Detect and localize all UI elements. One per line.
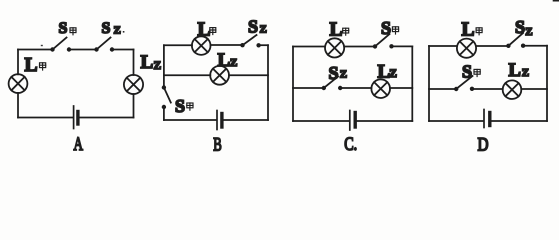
period after S yi label (A) (123, 31, 125, 33)
caption letter C (344, 135, 357, 155)
svg-text:L: L (509, 61, 521, 81)
label subscript jia of L (circuit C) (343, 28, 349, 35)
wire B bottom-right segment (224, 119, 269, 121)
battery cell (circuit A) negative plate (76, 112, 79, 125)
wire A left lower (17, 93, 19, 118)
switch S2 (S yi, circuit A) (94, 38, 114, 52)
label subscript jia of L (circuit D) (476, 28, 482, 35)
battery cell (circuit B) positive plate (216, 111, 218, 130)
label S jia (circuit A) (59, 20, 68, 37)
svg-text:S: S (248, 17, 258, 37)
svg-text:L: L (141, 52, 154, 73)
wire D bottom-left segment (429, 120, 483, 122)
lamp L yi (circuit C) (371, 79, 390, 98)
wire B top branch left segment (164, 44, 192, 46)
label L yi (circuit D) (509, 61, 530, 81)
wire B right vertical (267, 45, 269, 120)
svg-text:Z: Z (260, 24, 267, 36)
wire B middle branch left segment (164, 74, 210, 76)
label L yi (circuit A) (141, 52, 162, 73)
label L jia (circuit D) (462, 20, 475, 41)
label S jia (circuit D) (462, 62, 472, 82)
wire C top branch middle segment (344, 46, 375, 48)
wire A bottom-left segment (18, 117, 73, 119)
wire C middle branch middle segment (340, 87, 371, 89)
wire C right vertical (411, 46, 413, 121)
label L yi (circuit B) (218, 50, 238, 71)
caption letter D (478, 135, 489, 155)
battery cell (circuit C) negative plate (354, 113, 357, 128)
wire C top branch right segment (392, 45, 413, 47)
label L jia (circuit C) (330, 20, 343, 41)
label S yi (circuit B) (248, 17, 267, 37)
label subscript jia of S (circuit C) (392, 27, 398, 34)
switch S1 (S jia, circuit A) (50, 38, 71, 52)
battery cell (circuit A) positive plate (73, 106, 75, 129)
svg-text:Z: Z (230, 57, 237, 69)
scan smudge top right edge (554, 0, 559, 2)
svg-text:S: S (102, 20, 111, 37)
wire D middle branch middle segment (472, 88, 503, 90)
wire C middle branch left segment (293, 87, 324, 89)
svg-text:Z: Z (522, 67, 529, 79)
lamp L jia (circuit D) (457, 39, 476, 58)
svg-text:L: L (330, 20, 343, 41)
svg-text:Z: Z (154, 60, 162, 72)
wire D bottom-right segment (491, 120, 547, 122)
lamp L jia (circuit A) (9, 74, 28, 93)
svg-text:C.: C. (344, 135, 357, 155)
svg-text:S: S (59, 20, 68, 37)
label L jia (circuit B) (198, 19, 211, 40)
wire C bottom-left segment (293, 120, 349, 122)
svg-text:Z: Z (114, 25, 121, 37)
label subscript jia of S (circuit A) (70, 28, 76, 35)
wire D middle branch right segment (521, 88, 547, 90)
svg-text:Z: Z (389, 68, 397, 80)
wire A right upper (133, 50, 135, 76)
lamp L yi (circuit A) (124, 75, 143, 94)
label S jia (circuit B) (175, 96, 185, 116)
switch S jia (circuit C) (373, 34, 394, 49)
label subscript jia of L (circuit A) (40, 63, 46, 70)
wire A top-right segment (112, 49, 134, 51)
wire C left vertical (292, 47, 294, 122)
svg-text:A: A (74, 135, 84, 155)
label subscript jia of S (circuit B) (187, 103, 193, 110)
label subscript jia of S (circuit D) (474, 69, 480, 76)
switch S yi (circuit D) (506, 33, 525, 48)
scan speck left of switch S jia (A) (41, 45, 43, 46)
svg-text:S: S (329, 63, 339, 83)
wire A bottom-right segment (80, 117, 134, 119)
lamp L yi (circuit D) (503, 80, 522, 99)
wire D top branch right segment (523, 45, 547, 47)
svg-text:B: B (213, 135, 222, 155)
svg-text:S: S (462, 62, 472, 82)
svg-text:S: S (175, 96, 185, 116)
label S yi (circuit A) (102, 20, 121, 37)
wire D left vertical (428, 46, 430, 121)
battery cell (circuit C) positive plate (349, 111, 351, 131)
battery cell (circuit D) positive plate (483, 110, 485, 128)
lamp L jia (circuit C) (325, 38, 344, 57)
svg-text:L: L (25, 55, 38, 76)
wire B left vertical upper (163, 45, 165, 85)
battery cell (circuit B) negative plate (220, 114, 223, 128)
wire A right lower (133, 94, 135, 118)
svg-text:Z: Z (525, 26, 532, 38)
wire A top-middle segment (69, 49, 97, 51)
svg-text:D: D (478, 135, 489, 155)
wire C top branch left segment (293, 46, 325, 48)
switch S jia (circuit D) (454, 76, 474, 91)
wire D right vertical (546, 46, 548, 121)
svg-text:S: S (381, 18, 391, 38)
label S yi (circuit D) (515, 17, 533, 38)
wire D top branch left segment (429, 45, 457, 47)
switch S yi (circuit C) (322, 77, 343, 91)
wire C middle branch right segment (390, 87, 412, 89)
svg-text:L: L (198, 19, 211, 40)
battery cell (circuit D) negative plate (488, 113, 491, 126)
lamp L jia (circuit B) (192, 36, 211, 55)
switch S yi (circuit B) (240, 35, 260, 48)
caption letter B (213, 135, 222, 155)
switch S jia (circuit B, on left wire) (162, 85, 171, 109)
wire A left upper (17, 50, 19, 75)
wire B top branch middle segment (211, 44, 243, 46)
wire C bottom-right segment (357, 120, 413, 122)
label S yi (circuit C) (329, 63, 348, 83)
svg-text:Z: Z (340, 69, 347, 81)
label L yi (circuit C) (378, 61, 398, 82)
lamp L yi (circuit B) (210, 66, 229, 85)
label L jia (circuit A) (25, 55, 38, 76)
svg-text:L: L (218, 50, 231, 71)
wire A top-left segment (18, 49, 53, 51)
label subscript jia of L (circuit B) (210, 28, 216, 35)
label S jia (circuit C) (381, 18, 391, 38)
wire D middle branch left segment (429, 88, 456, 90)
svg-text:S: S (515, 17, 525, 37)
wire B middle branch right segment (229, 74, 268, 76)
svg-text:L: L (462, 20, 475, 41)
wire B bottom-left segment (164, 119, 216, 121)
caption letter A (74, 135, 84, 155)
wire B top branch right segment (259, 44, 268, 46)
wire D top branch middle segment (476, 45, 508, 47)
wire B left vertical lower (163, 107, 165, 120)
